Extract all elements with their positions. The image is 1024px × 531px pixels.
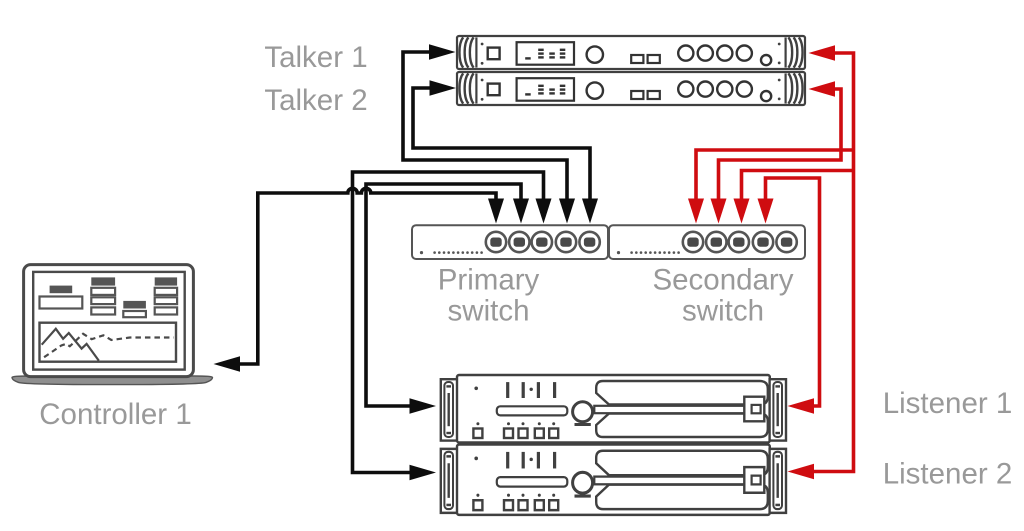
controller laptop bbox=[12, 265, 213, 385]
wire W1: talker T1 to primary switch port 4 (black) bbox=[403, 52, 567, 201]
listener L2 amplifier bbox=[441, 445, 786, 515]
arrowhead into talker T1 bbox=[429, 44, 456, 60]
wire R3: branch to secondary switch port 3 (red) bbox=[742, 171, 854, 202]
arrowhead into primary switch port 3 bbox=[536, 199, 552, 224]
secondary switch SW2 bbox=[609, 225, 805, 259]
arrowhead into listener L1 bbox=[410, 398, 437, 414]
arrowhead into talker T2 bbox=[430, 80, 457, 96]
listener L1 amplifier bbox=[441, 375, 786, 443]
primary switch SW1 bbox=[412, 225, 608, 259]
arrowhead into primary switch port 1 bbox=[488, 199, 504, 224]
arrowhead into primary switch port 2 bbox=[513, 199, 529, 224]
svg-text:Secondary: Secondary bbox=[652, 264, 793, 297]
arrowhead into secondary switch port 3 bbox=[734, 199, 750, 224]
arrowhead into secondary switch port 1 bbox=[688, 199, 704, 224]
arrowhead into secondary switch port 4 bbox=[758, 199, 774, 224]
wire W4: listener L1 to primary switch port 2 (black) bbox=[366, 184, 521, 406]
arrowhead into primary switch port 4 bbox=[559, 199, 575, 224]
wire W5: listener L2 to primary switch port 3 (black) bbox=[353, 172, 544, 473]
wire R1: talker T1 / secondary switch port 1 / listener L2 (red) bbox=[696, 53, 854, 472]
arrowhead into talker T2 right bbox=[809, 81, 836, 97]
svg-text:Listener 1: Listener 1 bbox=[883, 387, 1013, 420]
arrowhead into listener L1 right bbox=[788, 398, 815, 414]
svg-text:switch: switch bbox=[448, 295, 530, 328]
wire W2: talker T2 to primary switch port 5 (black) bbox=[413, 88, 590, 201]
arrowhead into primary switch port 5 bbox=[582, 199, 598, 224]
arrowhead into talker T1 right bbox=[809, 45, 836, 61]
svg-text:Controller 1: Controller 1 bbox=[39, 398, 191, 431]
svg-text:Primary: Primary bbox=[438, 264, 540, 297]
arrowhead into controller laptop bbox=[214, 356, 241, 372]
svg-text:Talker 2: Talker 2 bbox=[264, 84, 367, 117]
svg-text:Listener 2: Listener 2 bbox=[883, 458, 1013, 491]
arrowhead into listener L2 right bbox=[788, 464, 815, 480]
svg-text:Talker 1: Talker 1 bbox=[264, 41, 367, 74]
arrowhead into secondary switch port 2 bbox=[711, 199, 727, 224]
talker T2 rack unit bbox=[457, 72, 805, 105]
arrowhead into listener L2 bbox=[410, 465, 437, 481]
talker T1 rack unit bbox=[457, 36, 805, 69]
svg-text:switch: switch bbox=[682, 295, 764, 328]
wire W3: controller to primary switch port 1 (black, hops over W4 W5) bbox=[240, 188, 496, 364]
wire R4: secondary switch port 4 to listener L1 (red) bbox=[766, 178, 820, 406]
wire R2: talker T2 to secondary switch port 2 (red) bbox=[719, 89, 842, 201]
